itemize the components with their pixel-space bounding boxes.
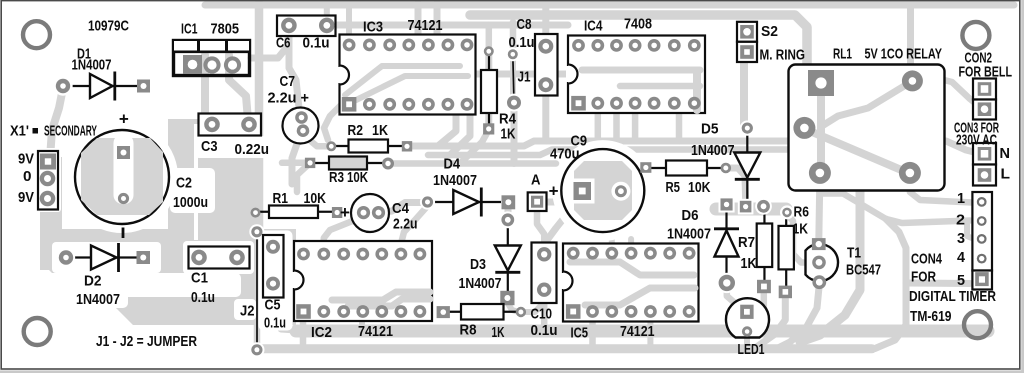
svg-text:D4: D4 <box>444 156 461 173</box>
svg-text:1N4007: 1N4007 <box>667 226 711 243</box>
wire IC4 pad stubs <box>595 109 602 141</box>
diode D2 1N4007 <box>66 256 150 258</box>
transistor T1 BC547 <box>806 244 839 281</box>
svg-text:7805: 7805 <box>211 21 240 38</box>
wire R3 left to pour <box>282 160 310 167</box>
svg-text:1K: 1K <box>741 255 757 272</box>
wire IC3 stair exit to R2 <box>324 96 350 140</box>
svg-text:C5: C5 <box>265 297 281 314</box>
svg-text:TM-619: TM-619 <box>910 308 952 325</box>
resistor R7 1K <box>763 208 765 224</box>
svg-text:7408: 7408 <box>624 16 652 33</box>
connector X1 9V-0-9V <box>38 151 58 210</box>
svg-text:BC547: BC547 <box>846 262 881 279</box>
wire IC5 stub 1 <box>589 316 596 346</box>
svg-text:1N4007: 1N4007 <box>72 57 112 74</box>
wire IC3 pad1 stub up <box>346 7 352 40</box>
wire behind J2 <box>254 232 261 350</box>
jumper J2 <box>256 232 258 350</box>
svg-text:1K: 1K <box>492 324 505 341</box>
svg-text:4: 4 <box>957 249 966 266</box>
svg-text:1000u: 1000u <box>173 194 208 211</box>
svg-text:IC1: IC1 <box>181 21 198 38</box>
svg-text:1N4007: 1N4007 <box>691 142 735 159</box>
wire upper rail to relay <box>470 15 807 126</box>
wire top to IC3 x418 <box>415 3 422 40</box>
svg-text:C10: C10 <box>531 306 553 323</box>
svg-text:74121: 74121 <box>620 323 655 340</box>
svg-text:D5: D5 <box>701 121 719 138</box>
mounting hole bottom-left <box>24 318 51 345</box>
wire C7 down <box>292 138 299 184</box>
svg-text:0: 0 <box>23 168 32 185</box>
wire R6 bottom down <box>758 292 785 346</box>
svg-text:D3: D3 <box>470 256 486 273</box>
wire D3 to R8 <box>507 302 519 312</box>
IC4 7408 <box>568 36 705 114</box>
svg-text:74121: 74121 <box>408 17 443 34</box>
wire C5 to IC2 underside <box>273 288 296 330</box>
wire C8 pad up <box>542 5 549 43</box>
svg-text:R7: R7 <box>738 234 755 251</box>
connector S2 / M.RING <box>737 22 757 42</box>
svg-text:9V: 9V <box>18 151 34 168</box>
wire C10 bottom down <box>541 292 548 331</box>
wire bottom rail <box>257 344 872 353</box>
svg-text:IC2: IC2 <box>311 324 332 341</box>
svg-text:X1': X1' <box>10 123 29 140</box>
svg-text:10K: 10K <box>304 190 327 207</box>
wire IC3-IC4 link <box>460 71 566 78</box>
wire T1 bottom curve <box>778 284 819 348</box>
svg-text:S2: S2 <box>761 23 778 40</box>
svg-text:IC3: IC3 <box>363 19 383 36</box>
svg-text:1: 1 <box>957 190 965 207</box>
svg-text:0.1u: 0.1u <box>191 289 215 306</box>
svg-text:+: + <box>549 182 559 201</box>
wire D4 to IC2 pad6 <box>401 206 428 250</box>
mounting hole top-right <box>962 22 989 49</box>
capacitor C9 470u <box>557 145 649 237</box>
resistor R5 10K <box>646 167 666 169</box>
wire R3 pad down <box>297 163 310 192</box>
svg-text:R5: R5 <box>666 179 681 196</box>
svg-text:5: 5 <box>957 272 965 289</box>
resistor R3 10K <box>310 162 329 164</box>
wire behind J1 <box>510 54 516 104</box>
wire vert x455 <box>438 106 456 146</box>
capacitor C8 0.1u <box>535 34 558 96</box>
IC3 74121 <box>340 35 476 115</box>
wire behind R4 <box>485 54 492 128</box>
wire long vertical to J2 <box>255 3 264 230</box>
svg-text:2.2u: 2.2u <box>393 216 418 233</box>
svg-text:1K: 1K <box>501 126 516 143</box>
wire IC5 pad stubs up <box>609 236 615 250</box>
svg-text:0.1u: 0.1u <box>264 315 286 332</box>
wire relay area down to rail curve <box>800 188 860 342</box>
wire J1 pad up <box>510 22 517 52</box>
wire R2 to C7 <box>304 131 332 146</box>
wire C4 to D4 <box>381 203 428 213</box>
wire behind 74121 label <box>330 22 568 29</box>
svg-text:10979C: 10979C <box>88 18 129 35</box>
svg-text:470u: 470u <box>550 146 580 163</box>
svg-text:1K: 1K <box>793 221 809 238</box>
resistor R6 1K <box>785 213 787 226</box>
capacitor C4 2.2u <box>351 194 389 232</box>
svg-text:0.22u: 0.22u <box>235 141 270 158</box>
svg-text:T1: T1 <box>847 245 861 262</box>
wire from D1 pad to pour <box>50 88 63 158</box>
capacitor C5 0.1u <box>263 235 284 298</box>
wire C9 to C10 <box>544 198 580 244</box>
pour clearance channels <box>194 124 198 240</box>
wire rail C to R4 <box>460 133 487 164</box>
wire CON4 pin3 stub <box>967 221 974 240</box>
wire top to IC3 x437 <box>434 3 441 40</box>
wire CON4 pin5 horizontal <box>906 280 970 288</box>
svg-text:C2: C2 <box>176 175 192 192</box>
svg-text:DIGITAL TIMER: DIGITAL TIMER <box>909 288 996 305</box>
copper pour left region <box>40 157 62 270</box>
connector CON2 FOR BELL <box>973 79 996 100</box>
wire D4 pad to D3 pad <box>505 202 512 220</box>
wire branch to CON4 pin2 <box>821 194 970 224</box>
wire R1 to pour <box>233 209 256 216</box>
capacitor C7 2.2u <box>283 108 319 144</box>
regulator IC1 7805 <box>174 41 250 76</box>
svg-text:C8: C8 <box>517 16 532 33</box>
svg-text:230V AC: 230V AC <box>956 132 997 149</box>
svg-text:1K: 1K <box>372 122 388 139</box>
wire IC5 stub 2 <box>647 316 653 346</box>
wire top band to relay pad <box>907 5 914 78</box>
svg-text:R1: R1 <box>273 190 289 207</box>
mounting hole bottom-right <box>964 311 991 338</box>
wire S2 to D5 <box>740 62 748 124</box>
wire C10 top to A <box>537 213 544 252</box>
jumper J1 <box>513 54 514 102</box>
svg-text:0.1u: 0.1u <box>509 34 535 51</box>
svg-text:R6: R6 <box>794 204 810 221</box>
wire C8 pad down <box>542 88 549 141</box>
svg-text:RL1: RL1 <box>833 46 852 63</box>
wire D6 to LED1 <box>727 287 742 309</box>
resistor R4 1K <box>488 51 490 70</box>
wire A pad to C9 <box>547 195 580 202</box>
svg-text:M. RING: M. RING <box>760 47 806 64</box>
svg-text:10K: 10K <box>347 169 368 186</box>
svg-text:1N4007: 1N4007 <box>459 275 502 292</box>
svg-text:C1: C1 <box>191 270 208 287</box>
svg-text:N: N <box>1000 145 1011 162</box>
svg-text:9V: 9V <box>18 189 34 206</box>
svg-text:C6: C6 <box>276 35 291 52</box>
svg-text:1N4007: 1N4007 <box>76 291 120 308</box>
wire mid rail A y143 <box>412 141 974 152</box>
wire IC2 pad stub <box>359 316 365 329</box>
svg-text:D6: D6 <box>682 207 699 224</box>
svg-text:SECONDARY: SECONDARY <box>44 123 97 140</box>
svg-text:1N4007: 1N4007 <box>433 172 477 189</box>
wire LED1 to rail <box>744 337 750 348</box>
wire R6 to T1 <box>787 214 812 263</box>
capacitor C6 0.1u <box>277 16 336 37</box>
svg-text:R8: R8 <box>460 322 477 339</box>
wire vert x470 <box>450 106 470 155</box>
wire R4 pad up <box>486 25 493 50</box>
capacitor C1 0.1u <box>189 247 250 269</box>
svg-text:J2: J2 <box>240 303 255 320</box>
svg-text:D2: D2 <box>84 273 102 290</box>
svg-text:LED1: LED1 <box>738 341 765 358</box>
wire vertical to bottom rail <box>875 219 906 349</box>
svg-text:J1: J1 <box>518 69 531 86</box>
svg-text:10K: 10K <box>688 179 711 196</box>
diode D6 1N4007 <box>725 208 727 229</box>
diode D4 1N4007 <box>433 201 501 203</box>
wire relay pad to T1 <box>819 175 820 240</box>
svg-text:FOR BELL: FOR BELL <box>959 64 1013 81</box>
resistor R8 1K <box>444 311 461 313</box>
svg-text:R2: R2 <box>348 122 364 139</box>
svg-text:IC4: IC4 <box>584 18 603 35</box>
wire IC2 pad1 to rail <box>300 318 307 345</box>
wire C4 to IC2 pad <box>324 214 364 250</box>
svg-text:J1 - J2 = JUMPER: J1 - J2 = JUMPER <box>96 333 197 350</box>
capacitor C2 1000u <box>71 126 174 229</box>
svg-text:+: + <box>119 110 129 129</box>
connector CON3 230V AC <box>973 143 996 165</box>
wire CON2 diagonal <box>944 80 980 107</box>
resistor R1 10K <box>256 211 270 213</box>
wire R5 to D5 <box>726 168 746 200</box>
wire mid rail C y159 <box>394 160 556 167</box>
capacitor C3 0.22u <box>199 114 262 136</box>
svg-text:A: A <box>531 172 541 189</box>
wire C6 to C7 <box>289 27 299 108</box>
wire mid rail B y151 <box>428 150 850 156</box>
diode D3 1N4007 <box>507 224 509 292</box>
diode D1 1N4007 <box>68 85 137 87</box>
svg-text:IC5: IC5 <box>571 325 589 342</box>
IC2 74121 <box>294 241 432 321</box>
wire bottom band <box>296 325 988 338</box>
wire junction bar D6-D5-R7-R6 <box>716 203 786 216</box>
svg-text:5V 1CO RELAY: 5V 1CO RELAY <box>865 46 943 63</box>
connector CON4 digital timer <box>972 192 992 271</box>
mounting hole top-left <box>23 21 50 48</box>
capacitor C10 0.1u <box>532 243 557 304</box>
wire C6 right pad stub <box>324 7 330 18</box>
svg-text:R3: R3 <box>329 169 344 186</box>
diode D5 1N4007 <box>746 133 748 200</box>
wire R7 to LED1 <box>750 292 764 330</box>
svg-text:C7: C7 <box>280 73 296 90</box>
pad A <box>528 192 547 211</box>
wire J1 pad down <box>511 106 518 164</box>
wire top rail <box>205 2 1014 9</box>
relay RL1 5V 1CO <box>789 65 945 191</box>
svg-text:2.2u +: 2.2u + <box>268 90 310 107</box>
LED1 <box>726 298 769 337</box>
svg-text:C4: C4 <box>392 200 410 217</box>
svg-text:+: + <box>340 203 350 222</box>
svg-text:2: 2 <box>956 212 965 229</box>
svg-text:0.1u: 0.1u <box>531 322 558 339</box>
resistor R2 1K <box>331 145 348 147</box>
svg-text:CON4: CON4 <box>911 251 942 268</box>
svg-text:74121: 74121 <box>358 323 393 340</box>
svg-text:0.1u: 0.1u <box>303 35 330 52</box>
svg-text:L: L <box>1001 166 1011 183</box>
wire R8 to C10 <box>522 294 544 312</box>
IC5 74121 <box>563 244 699 322</box>
svg-text:C3: C3 <box>201 138 218 155</box>
wire relay pad to CON4 pin1 <box>910 175 972 203</box>
svg-text:FOR: FOR <box>911 269 936 286</box>
svg-text:3: 3 <box>957 230 965 247</box>
